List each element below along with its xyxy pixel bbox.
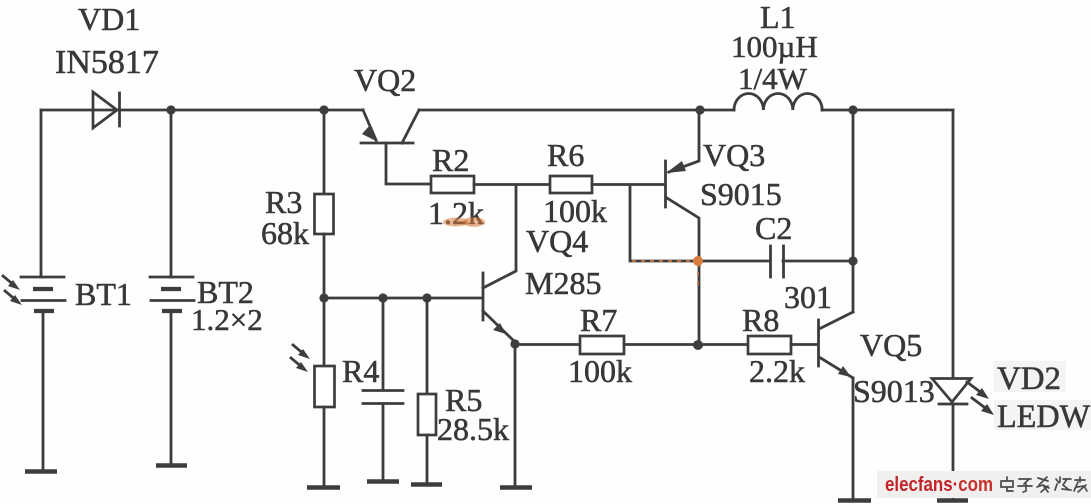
node junction top rail at VQ3/L1: [695, 105, 704, 114]
wire VQ5 emitter to ground: [852, 378, 855, 499]
svg-text:VQ2: VQ2: [354, 62, 416, 98]
svg-text:100k: 100k: [568, 353, 632, 389]
resistor R4 (photo): [315, 366, 335, 407]
wire VD2 to ground: [952, 404, 955, 499]
wire BT2 branch down: [170, 110, 173, 277]
svg-text:VD1: VD1: [78, 1, 140, 37]
wire R3 to mid node: [323, 234, 326, 298]
svg-text:2.2k: 2.2k: [749, 353, 805, 389]
svg-text:BT1: BT1: [75, 276, 132, 312]
node junction top rail at C2 line: [848, 105, 857, 114]
inductor L1: [734, 93, 822, 110]
svg-text:LEDW: LEDW: [997, 399, 1091, 435]
node junction top rail at R3: [319, 105, 328, 114]
label VD2 background: [994, 361, 1066, 392]
node junction top rail at BT2: [166, 105, 175, 114]
resistor R3: [315, 194, 334, 234]
svg-text:R4: R4: [342, 353, 379, 389]
svg-text:1/4W: 1/4W: [738, 61, 808, 96]
battery BT1 (solar cell): [21, 277, 65, 311]
wire R2 to R6: [474, 183, 550, 186]
wire rail L1 to right corner: [822, 109, 953, 112]
wire BT2 to ground: [170, 311, 173, 464]
svg-text:S9013: S9013: [853, 373, 935, 409]
svg-text:VQ5: VQ5: [860, 327, 922, 363]
svg-text:R2: R2: [432, 142, 469, 178]
resistor R7: [580, 336, 624, 354]
svg-text:elecfans·com: elecfans·com: [885, 474, 993, 496]
svg-text:68k: 68k: [261, 215, 309, 251]
svg-text:R8: R8: [742, 302, 779, 338]
svg-text:VQ3: VQ3: [703, 137, 765, 173]
wire R5 to ground: [426, 435, 429, 483]
wire left branch down to BT1: [40, 110, 43, 277]
capacitor C1: [363, 391, 403, 404]
svg-text:C2: C2: [755, 210, 792, 246]
node mid junction at C1: [378, 293, 387, 302]
ground BT1: [25, 469, 57, 474]
light arrows into BT1: [3, 276, 22, 305]
svg-text:100µH: 100µH: [731, 29, 818, 64]
wire top rail left from corner to VQ2 emitter: [41, 109, 363, 112]
ground C1: [367, 479, 399, 484]
watermark chinese characters: [1001, 477, 1087, 492]
wire right vertical rail to VQ5 collector: [852, 110, 855, 312]
wire C1 branch: [382, 298, 385, 390]
wire VD2 branch vertical: [952, 110, 955, 378]
diode VD1: [93, 92, 120, 128]
wire R3 branch top: [323, 110, 326, 194]
wire R7 to R8: [624, 343, 748, 346]
wire C2 to right rail: [783, 260, 853, 263]
wire R4 branch: [323, 298, 326, 366]
node mid junction at R5: [422, 293, 431, 302]
resistor R2: [431, 176, 474, 193]
ground VQ4: [500, 485, 532, 490]
svg-text:VQ4: VQ4: [526, 223, 588, 259]
wire mid horizontal to VQ4 base: [324, 297, 482, 300]
label LEDW background: [994, 400, 1091, 430]
ground VD2: [937, 498, 968, 503]
transistor VQ2: [361, 110, 431, 184]
svg-text:VD2: VD2: [997, 361, 1061, 397]
watermark background: [877, 471, 1091, 498]
resistor R6: [550, 176, 592, 193]
svg-text:301: 301: [784, 279, 832, 315]
LED VD2: [932, 379, 971, 405]
ground BT2: [156, 463, 187, 468]
wire orange tint segment: [632, 260, 697, 262]
wire BT1 to ground: [42, 311, 45, 470]
svg-text:IN5817: IN5817: [55, 44, 159, 81]
wire top rail right from VQ2 collector to L1: [419, 109, 734, 112]
wire R4 to ground: [323, 407, 326, 486]
svg-text:1.2×2: 1.2×2: [191, 302, 263, 337]
battery BT2: [150, 277, 194, 311]
svg-text:28.5k: 28.5k: [437, 411, 509, 447]
wire R5 branch: [426, 298, 429, 394]
svg-text:R6: R6: [547, 137, 584, 173]
node mid junction at R3/R4: [319, 293, 328, 302]
wire emitter node to R7: [515, 343, 580, 346]
wire C1 to ground: [382, 404, 385, 480]
svg-text:R7: R7: [580, 302, 617, 338]
resistor R8: [748, 336, 791, 354]
light arrows out of VD2: [967, 382, 994, 415]
wire R8 to VQ5 base: [791, 343, 818, 346]
resistor R5: [418, 394, 436, 435]
ground R5: [411, 482, 442, 487]
transistor VQ3: [666, 110, 700, 345]
node orange junction C2 line / VQ3 collector: [693, 256, 703, 266]
node junction C2 right: [848, 256, 857, 265]
wire R6 to VQ3 base: [592, 183, 664, 186]
node junction R7/R8/VQ3 collector: [693, 340, 703, 350]
capacitor C2: [771, 246, 784, 277]
ground R4: [307, 485, 340, 490]
svg-text:M285: M285: [525, 265, 601, 301]
transistor VQ4: [483, 185, 516, 342]
light arrows into R4: [291, 345, 310, 372]
svg-text:S9015: S9015: [700, 176, 782, 212]
ground VQ5: [838, 498, 871, 503]
transistor VQ5: [819, 312, 854, 378]
wire VQ4 emitter to ground: [514, 344, 517, 486]
node VQ4 emitter junction: [510, 339, 519, 348]
wire VQ3 base feedback corner: [630, 185, 770, 261]
